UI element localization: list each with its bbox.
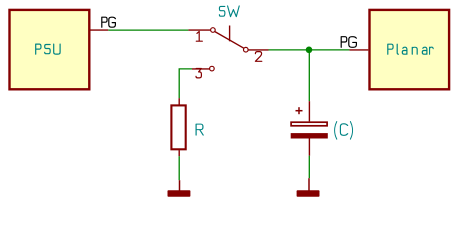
switch SW label	[219, 6, 239, 17]
junction dot	[306, 47, 313, 54]
label PG (left)	[102, 17, 116, 27]
switch actuator mark	[229, 26, 231, 42]
component Planar box	[370, 10, 450, 89]
capacitor label (C)	[335, 122, 353, 139]
capacitor C top pin	[308, 101, 310, 121]
switch pin number 1	[196, 31, 202, 41]
ground symbol (right)	[297, 178, 320, 197]
wire SW pin3 to resistor	[179, 69, 192, 98]
resistor R top pin	[178, 98, 180, 105]
ground symbol (left)	[168, 180, 191, 197]
wire PSU to SW pin1	[108, 29, 188, 31]
switch SW pin 1	[188, 28, 215, 33]
wire resistor to ground	[178, 156, 180, 180]
switch pin number 3	[196, 69, 201, 78]
capacitor plus sign	[296, 107, 303, 114]
capacitor top plate	[291, 122, 327, 126]
resistor R body	[171, 105, 185, 149]
Planar label	[388, 44, 433, 54]
switch pin number 2	[255, 52, 261, 62]
capacitor bottom pin	[308, 139, 310, 156]
resistor label R	[196, 124, 203, 135]
capacitor bottom plate	[291, 133, 328, 138]
switch SW pin 3	[192, 66, 214, 71]
wire junction down to capacitor	[308, 50, 310, 101]
wire SW pin2 to junction	[269, 49, 310, 51]
component PSU box	[10, 10, 90, 89]
wire capacitor to ground	[308, 156, 310, 179]
wire junction to Planar pin	[309, 49, 349, 51]
wire to Planar / Planar pin PG	[349, 49, 368, 51]
resistor R bottom pin	[178, 150, 180, 156]
PSU pin PG	[91, 29, 109, 31]
PSU label	[36, 44, 60, 54]
label PG (right)	[341, 37, 356, 48]
switch blade	[215, 32, 244, 49]
switch SW pin 2	[244, 47, 269, 52]
